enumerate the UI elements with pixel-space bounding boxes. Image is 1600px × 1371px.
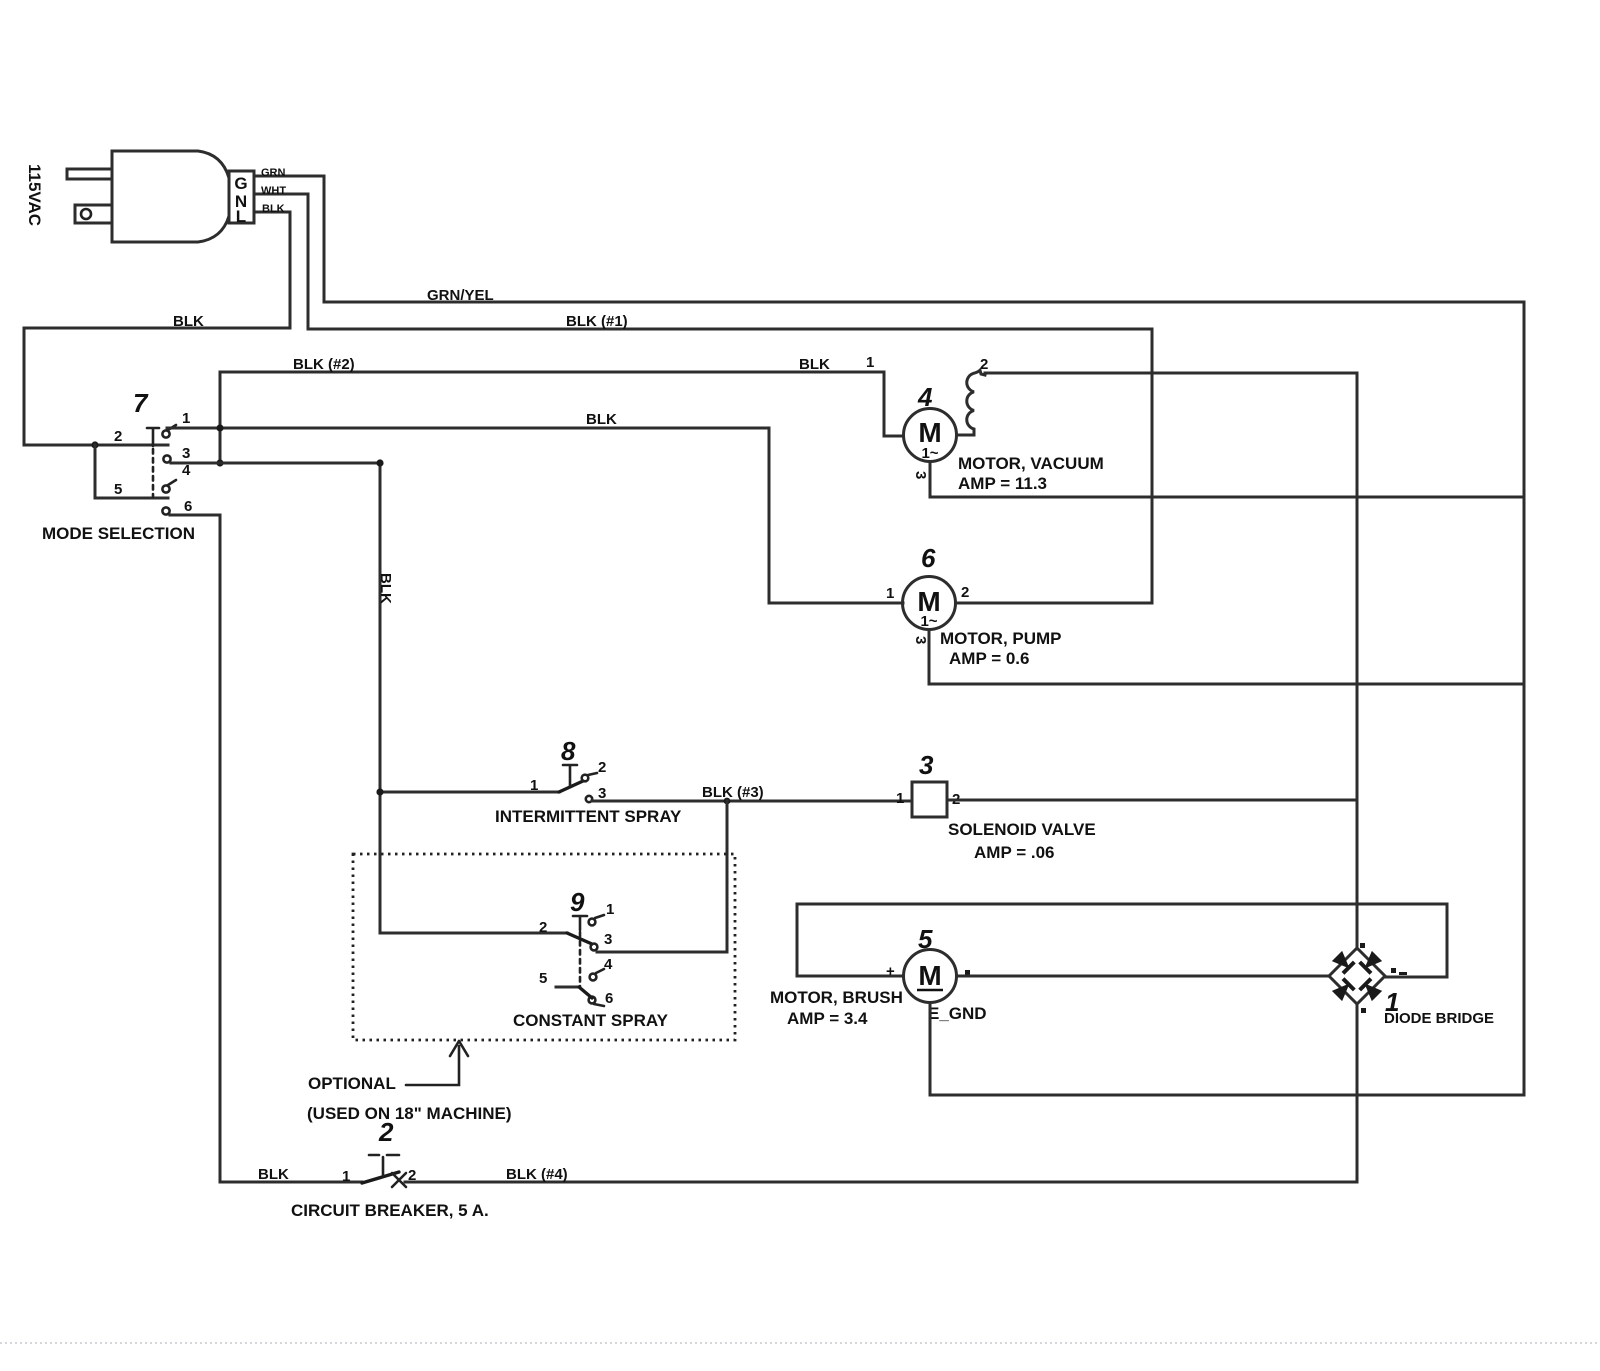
- wire GRN/YEL ground run: [324, 302, 1524, 1095]
- svg-text:2: 2: [378, 1117, 394, 1147]
- svg-text:4: 4: [182, 462, 191, 479]
- svg-text:2: 2: [408, 1167, 416, 1184]
- wire BLK (#1) neutral run: [308, 329, 1152, 603]
- svg-text:6: 6: [921, 543, 936, 573]
- motor M5 brush circle: [904, 950, 957, 1003]
- circuit breaker 2 actuator bracket: [369, 1155, 399, 1175]
- svg-text:5: 5: [918, 924, 933, 954]
- switch 8 contact pin2: [582, 775, 589, 782]
- svg-text:6: 6: [184, 498, 192, 515]
- svg-text:MOTOR, VACUUM: MOTOR, VACUUM: [958, 454, 1104, 473]
- svg-text:AMP = .06: AMP = .06: [974, 843, 1054, 862]
- svg-text:1~: 1~: [921, 445, 938, 462]
- svg-text:BLK: BLK: [173, 313, 204, 330]
- inductor coil vacuum: [957, 370, 985, 435]
- wire BLK (#2): [220, 372, 903, 463]
- scan artifact faint dotted line: [0, 1342, 1600, 1344]
- circuit breaker 2 contact X: [392, 1173, 406, 1187]
- constant spray switch 9 pin2 wire: [380, 932, 567, 935]
- svg-text:M: M: [918, 960, 941, 991]
- svg-text:3: 3: [912, 636, 929, 644]
- diode D1 top-left: [1332, 951, 1355, 974]
- plug P1 ground prong hole: [81, 209, 91, 219]
- svg-text:1: 1: [606, 901, 614, 918]
- wire GRN stub from plug: [254, 176, 324, 302]
- svg-text:CONSTANT SPRAY: CONSTANT SPRAY: [513, 1011, 669, 1030]
- motor M6 pump circle: [903, 577, 956, 630]
- svg-text:G: G: [234, 174, 247, 193]
- switch 9 dashed link: [579, 932, 582, 988]
- plug P1 neutral prong: [67, 169, 112, 179]
- wire motor minus to diode bridge: [957, 975, 1329, 978]
- circuit breaker 2 blade: [362, 1172, 399, 1183]
- switch 9 actuator T: [573, 916, 587, 930]
- wire mode selection pin1 to pump feed: [167, 428, 903, 603]
- svg-text:2: 2: [114, 428, 122, 445]
- svg-text:BLK (#1): BLK (#1): [566, 313, 628, 330]
- mode selection switch 7 contact pin4: [162, 485, 169, 492]
- switch 9 blade upper: [567, 933, 592, 944]
- svg-text:M: M: [918, 417, 941, 448]
- wire vacuum pin3 ground: [930, 462, 1524, 497]
- svg-text:BLK (#3): BLK (#3): [702, 784, 764, 801]
- svg-text:DIODE BRIDGE: DIODE BRIDGE: [1384, 1010, 1494, 1027]
- svg-text:1: 1: [866, 354, 874, 371]
- svg-text:9: 9: [570, 887, 585, 917]
- svg-text:3: 3: [598, 785, 606, 802]
- wire diode bottom to BLK#4: [405, 1004, 1357, 1182]
- svg-text:CIRCUIT BREAKER, 5 A.: CIRCUIT BREAKER, 5 A.: [291, 1201, 489, 1220]
- svg-text:115VAC: 115VAC: [25, 164, 44, 226]
- svg-text:BLK: BLK: [258, 1166, 289, 1183]
- diode D2 top-right: [1360, 951, 1383, 974]
- switch 9 pin5 wire and blade: [556, 986, 579, 989]
- switch 8 contact pin3: [586, 796, 592, 802]
- svg-text:1: 1: [896, 790, 904, 807]
- wire vacuum pin2 to solenoid rail: [985, 373, 1357, 949]
- svg-text:L: L: [236, 207, 246, 226]
- switch 9 pin3 wire: [597, 951, 727, 954]
- motor M4 vacuum circle: [904, 409, 957, 462]
- polarity dot top vertex: [1360, 943, 1365, 948]
- node junction spray feed: [376, 788, 383, 795]
- svg-text:OPTIONAL: OPTIONAL: [308, 1074, 396, 1093]
- svg-text:1~: 1~: [920, 613, 937, 630]
- svg-text:3: 3: [919, 750, 934, 780]
- switch 8 blade: [559, 781, 583, 792]
- wire mode selection pin3 to spray feed: [171, 463, 380, 933]
- mode selection switch 7 contact pin1: [162, 430, 169, 437]
- switch 9 contact pin4: [590, 974, 597, 981]
- svg-text:BLK (#4): BLK (#4): [506, 1166, 568, 1183]
- wire mode selection pin6 to breaker: [170, 515, 362, 1182]
- wire WHT stub from plug: [254, 194, 308, 329]
- optional arrow: [406, 1041, 468, 1085]
- svg-text:E_GND: E_GND: [928, 1004, 987, 1023]
- polarity dot bottom vertex: [1361, 1008, 1366, 1013]
- wire BLK#3 branch down to constant spray: [726, 801, 729, 952]
- svg-text:1: 1: [182, 410, 190, 427]
- svg-text:BLK: BLK: [377, 573, 394, 604]
- svg-text:6: 6: [605, 990, 613, 1007]
- optional dotted enclosure: [353, 854, 735, 1040]
- svg-text:4: 4: [917, 382, 933, 412]
- svg-text:AMP = 0.6: AMP = 0.6: [949, 649, 1029, 668]
- wire E_GND to ground rail: [930, 1003, 1524, 1095]
- svg-text:AMP = 11.3: AMP = 11.3: [958, 474, 1047, 493]
- svg-text:3: 3: [912, 471, 929, 479]
- mode selection switch 7 actuator T-bar: [147, 428, 159, 446]
- node junction pin3 corner: [376, 459, 383, 466]
- polarity dot right vertex: [1391, 968, 1396, 973]
- svg-text:MOTOR, BRUSH: MOTOR, BRUSH: [770, 988, 903, 1007]
- diode D3 bottom-left: [1332, 979, 1355, 1002]
- intermittent spray switch 8 feed wire pin1: [380, 791, 559, 794]
- svg-text:1: 1: [342, 1168, 350, 1185]
- svg-text:GRN/YEL: GRN/YEL: [427, 287, 494, 304]
- svg-text:5: 5: [114, 481, 122, 498]
- wire to motor plus: [797, 975, 903, 978]
- svg-text:BLK: BLK: [799, 356, 830, 373]
- svg-text:8: 8: [561, 736, 576, 766]
- svg-text:1: 1: [886, 585, 894, 602]
- polarity minus dot right of motor: [965, 970, 970, 975]
- node junction pin2/pin5 link: [91, 441, 98, 448]
- mode selection switch 7 dashed link: [152, 449, 155, 497]
- svg-text:2: 2: [598, 759, 606, 776]
- svg-text:2: 2: [961, 584, 969, 601]
- svg-text:2: 2: [539, 919, 547, 936]
- motor M5 brush loop top wire: [797, 904, 1447, 977]
- wire mode selection pin5 link: [95, 445, 168, 498]
- svg-text:(USED ON 18" MACHINE): (USED ON 18" MACHINE): [307, 1104, 512, 1123]
- wire solenoid pin2 to rail: [947, 799, 1357, 802]
- plug P1 body: [112, 151, 229, 242]
- wire pump pin3 ground: [929, 630, 1524, 684]
- svg-text:3: 3: [182, 445, 190, 462]
- svg-text:4: 4: [604, 956, 613, 973]
- polarity dash right vertex: [1399, 972, 1407, 975]
- svg-text:+: +: [886, 963, 895, 980]
- svg-text:3: 3: [604, 931, 612, 948]
- wire BLK (#3) to solenoid: [592, 800, 912, 803]
- mode selection switch 7 contact pin3: [163, 455, 170, 462]
- switch 8 actuator T: [563, 765, 577, 786]
- switch 9 contact pin1: [589, 919, 596, 926]
- plug terminal block GNL: [229, 171, 254, 223]
- svg-text:INTERMITTENT SPRAY: INTERMITTENT SPRAY: [495, 807, 682, 826]
- plug P1 ground prong: [75, 205, 112, 223]
- svg-text:BLK: BLK: [586, 411, 617, 428]
- node junction BLK#2 / pin3: [216, 459, 223, 466]
- switch 9 contact pin6: [589, 997, 596, 1004]
- svg-text:WHT: WHT: [261, 185, 286, 197]
- svg-text:5: 5: [539, 970, 547, 987]
- svg-text:BLK: BLK: [262, 203, 285, 215]
- svg-text:AMP = 3.4: AMP = 3.4: [787, 1009, 868, 1028]
- mode selection switch 7 contact pin6: [162, 507, 169, 514]
- svg-text:1: 1: [530, 777, 538, 794]
- svg-text:MODE SELECTION: MODE SELECTION: [42, 524, 195, 543]
- node junction BLK#2 / pin1: [216, 424, 223, 431]
- svg-text:MOTOR, PUMP: MOTOR, PUMP: [940, 629, 1062, 648]
- wire BLK hot run to mode selection: [24, 328, 290, 445]
- wire BLK stub from plug: [254, 212, 290, 328]
- solenoid valve 3 box: [912, 782, 947, 817]
- switch 9 contact pin3: [591, 944, 598, 951]
- switch 9 blade lower: [579, 987, 592, 998]
- svg-text:SOLENOID VALVE: SOLENOID VALVE: [948, 820, 1096, 839]
- svg-text:BLK (#2): BLK (#2): [293, 356, 355, 373]
- node junction BLK#3 branch: [724, 798, 731, 805]
- diode bridge 1 diamond: [1329, 948, 1385, 1004]
- svg-text:GRN: GRN: [261, 167, 286, 179]
- diode D4 bottom-right: [1360, 979, 1383, 1002]
- svg-text:7: 7: [133, 388, 149, 418]
